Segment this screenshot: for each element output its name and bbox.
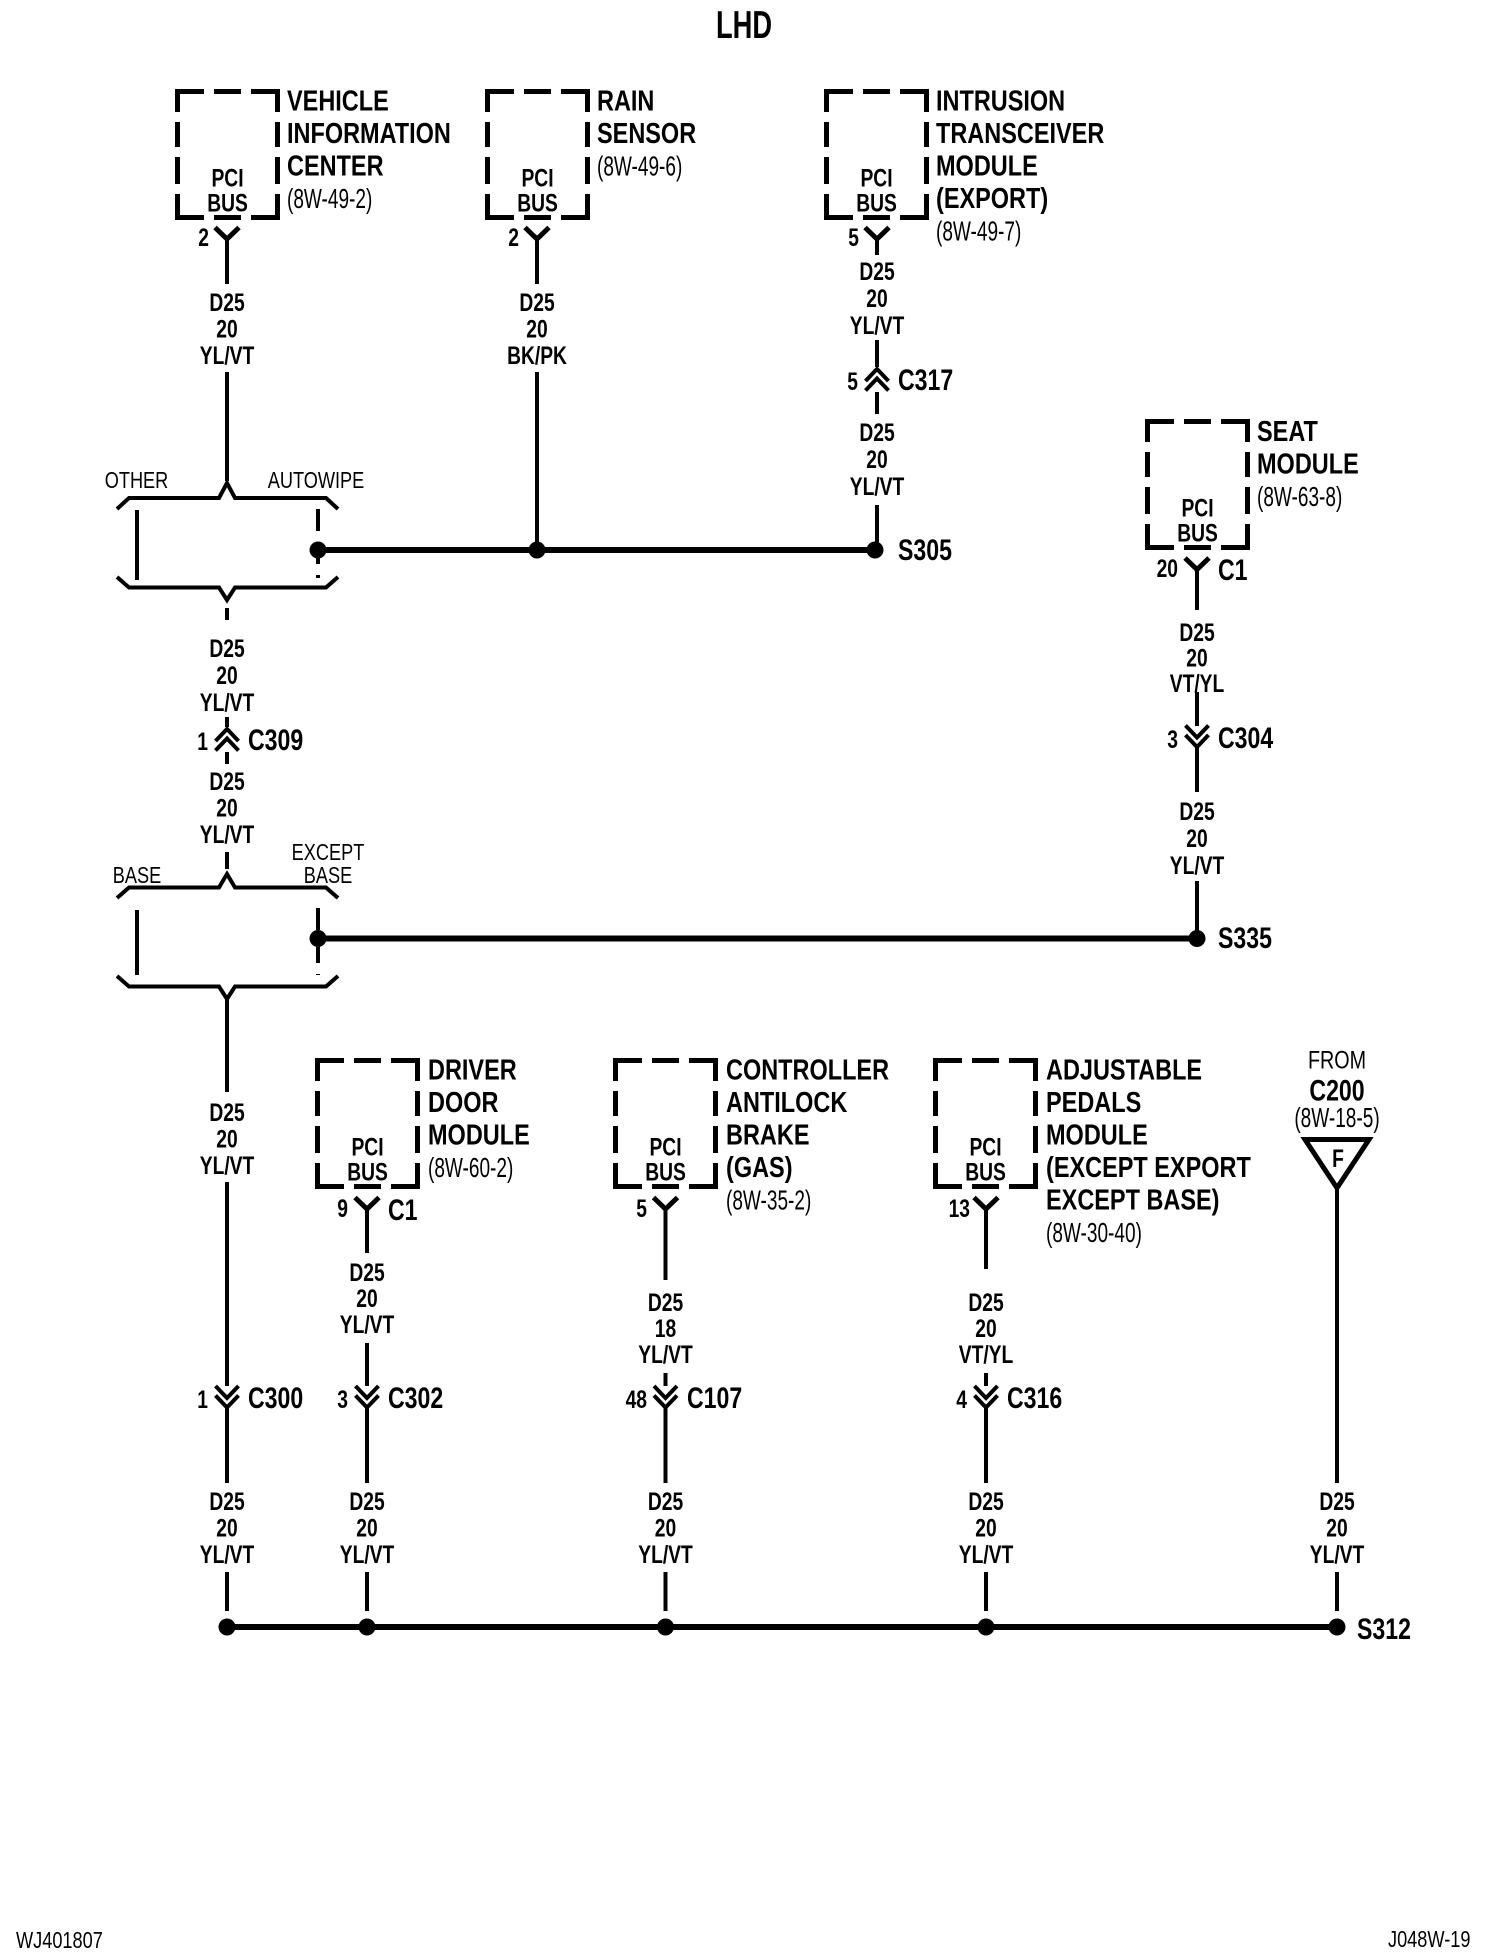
wire VIC to splice bbox=[225, 372, 229, 481]
wire C309 lower stem bbox=[225, 752, 229, 764]
svg-text:PCI: PCI bbox=[649, 1133, 681, 1161]
svg-text:OTHER: OTHER bbox=[105, 468, 169, 494]
svg-text:(8W-35-2): (8W-35-2) bbox=[726, 1185, 811, 1217]
svg-text:D25: D25 bbox=[519, 289, 554, 317]
wire rain sensor to S305 bbox=[535, 372, 539, 548]
pin 5 of intrusion module bbox=[848, 224, 859, 252]
wire label D25 20 YL/VT (controller column lower) bbox=[638, 1488, 693, 1569]
svg-text:YL/VT: YL/VT bbox=[638, 1541, 693, 1569]
module U1 VEHICLE INFORMATION CENTER box bbox=[175, 84, 451, 220]
svg-text:YL/VT: YL/VT bbox=[200, 1152, 255, 1180]
svg-text:20: 20 bbox=[216, 1514, 237, 1542]
svg-text:LHD: LHD bbox=[716, 4, 772, 47]
svg-text:1: 1 bbox=[197, 728, 208, 756]
connector Y at pedals pin 13 bbox=[974, 1198, 998, 1270]
wire label D25 20 YL/VT (left column) bbox=[200, 1099, 255, 1180]
svg-text:VT/YL: VT/YL bbox=[959, 1341, 1014, 1369]
svg-text:(EXPORT): (EXPORT) bbox=[936, 182, 1048, 215]
wire C200 column to S312 bbox=[1335, 1572, 1339, 1611]
svg-text:ADJUSTABLE: ADJUSTABLE bbox=[1046, 1053, 1202, 1086]
svg-text:VEHICLE: VEHICLE bbox=[287, 84, 389, 117]
svg-text:PCI: PCI bbox=[521, 164, 553, 192]
wire AUTOWIPE branch (dashed) bbox=[316, 509, 320, 578]
svg-text:(8W-63-8): (8W-63-8) bbox=[1257, 481, 1342, 513]
wire controller to C107 bbox=[664, 1373, 668, 1386]
svg-text:20: 20 bbox=[1186, 825, 1207, 853]
wire label D25 20 YL/VT (above base splice) bbox=[200, 768, 255, 849]
brace top of BASE splice bbox=[117, 874, 338, 898]
module U2 RAIN SENSOR box bbox=[485, 84, 696, 220]
svg-text:20: 20 bbox=[526, 315, 547, 343]
svg-text:YL/VT: YL/VT bbox=[638, 1341, 693, 1369]
svg-text:D25: D25 bbox=[349, 1259, 384, 1287]
connector C300 bbox=[197, 1381, 303, 1415]
pin 9 of driver door module connector C1 bbox=[337, 1195, 348, 1223]
wire stub above base splice (dashed) bbox=[225, 852, 229, 869]
wire left column to C300 bbox=[225, 1182, 229, 1386]
svg-text:FROM: FROM bbox=[1308, 1046, 1366, 1074]
connector Y C1 at seat module bbox=[1185, 553, 1248, 610]
wire controller column to S312 bbox=[664, 1572, 668, 1611]
wire intrusion to C317 bbox=[875, 340, 879, 367]
svg-text:5: 5 bbox=[847, 368, 858, 396]
svg-text:D25: D25 bbox=[859, 258, 894, 286]
svg-text:D25: D25 bbox=[209, 635, 244, 663]
svg-text:13: 13 bbox=[949, 1195, 970, 1223]
connector Y at VIC pin 2 bbox=[215, 228, 239, 285]
wire pedals to C316 bbox=[984, 1373, 988, 1386]
wire EXCEPT BASE branch (dashed) bbox=[316, 908, 320, 975]
wire C302 lower stem bbox=[365, 1407, 369, 1483]
wire seat to C304 bbox=[1195, 692, 1199, 726]
connector C107 bbox=[626, 1381, 743, 1415]
svg-text:C316: C316 bbox=[1007, 1381, 1062, 1415]
svg-text:3: 3 bbox=[337, 1386, 348, 1414]
node rain junction on S305 line bbox=[529, 542, 546, 559]
svg-text:C1: C1 bbox=[1218, 553, 1248, 587]
svg-text:PCI: PCI bbox=[860, 164, 892, 192]
off-page connector F from C200 bbox=[1294, 1046, 1379, 1188]
wire label D25 20 BK/PK (rain) bbox=[507, 289, 567, 370]
svg-text:RAIN: RAIN bbox=[597, 84, 654, 117]
wire OTHER branch bbox=[135, 510, 139, 580]
wire below base splice bbox=[225, 1000, 229, 1092]
svg-text:YL/VT: YL/VT bbox=[850, 473, 905, 501]
svg-text:20: 20 bbox=[866, 285, 887, 313]
module U3 INTRUSION TRANSCEIVER MODULE box bbox=[824, 84, 1104, 247]
brace bottom of BASE splice bbox=[117, 976, 338, 999]
brace bottom of OTHER/AUTOWIPE splice bbox=[117, 577, 338, 600]
svg-text:20: 20 bbox=[975, 1315, 996, 1343]
footer drawing number WJ401807 bbox=[16, 1928, 103, 1954]
svg-text:18: 18 bbox=[655, 1315, 676, 1343]
svg-text:F: F bbox=[1332, 1145, 1344, 1173]
wire stub below splice (dashed) bbox=[225, 608, 229, 620]
svg-text:BUS: BUS bbox=[207, 189, 248, 217]
wire label D25 20 YL/VT (intrusion lower) bbox=[850, 419, 905, 501]
svg-text:BUS: BUS bbox=[347, 1158, 388, 1186]
svg-text:20: 20 bbox=[1326, 1514, 1347, 1542]
svg-text:AUTOWIPE: AUTOWIPE bbox=[268, 468, 365, 494]
svg-text:2: 2 bbox=[198, 224, 209, 252]
svg-text:D25: D25 bbox=[1179, 798, 1214, 826]
svg-text:20: 20 bbox=[356, 1285, 377, 1313]
connector C317 bbox=[847, 363, 953, 397]
pin 13 of adjustable pedals module bbox=[949, 1195, 970, 1223]
svg-text:C107: C107 bbox=[687, 1381, 742, 1415]
svg-text:D25: D25 bbox=[1179, 619, 1214, 647]
pin 2 of VIC bbox=[198, 224, 209, 252]
wire C300 lower stem bbox=[225, 1407, 229, 1483]
svg-text:BUS: BUS bbox=[856, 189, 897, 217]
svg-text:PCI: PCI bbox=[351, 1133, 383, 1161]
svg-text:YL/VT: YL/VT bbox=[1310, 1541, 1365, 1569]
svg-text:20: 20 bbox=[1186, 644, 1207, 672]
svg-text:(8W-30-40): (8W-30-40) bbox=[1046, 1217, 1142, 1249]
svg-text:SEAT: SEAT bbox=[1257, 415, 1318, 448]
svg-text:DRIVER: DRIVER bbox=[428, 1053, 517, 1086]
svg-text:C300: C300 bbox=[248, 1381, 303, 1415]
pin 20 of seat module connector C1 bbox=[1157, 555, 1178, 583]
wire C316 lower stem bbox=[984, 1407, 988, 1483]
node junction pedals column bbox=[978, 1619, 995, 1636]
wire C304 lower stem bbox=[1195, 747, 1199, 793]
svg-text:C302: C302 bbox=[388, 1381, 443, 1415]
node junction except-base branch bbox=[310, 930, 327, 947]
svg-text:YL/VT: YL/VT bbox=[200, 821, 255, 849]
svg-text:(8W-18-5): (8W-18-5) bbox=[1294, 1102, 1379, 1134]
svg-text:D25: D25 bbox=[209, 289, 244, 317]
svg-text:(8W-49-2): (8W-49-2) bbox=[287, 183, 372, 215]
wire to splice S305 bbox=[875, 505, 879, 547]
module U4 SEAT MODULE box bbox=[1145, 415, 1359, 550]
module U5 DRIVER DOOR MODULE box bbox=[315, 1053, 530, 1189]
svg-text:20: 20 bbox=[216, 1125, 237, 1153]
wire label D25 18 YL/VT (controller) bbox=[638, 1289, 693, 1369]
connector C309 bbox=[197, 723, 303, 757]
splice S305 bbox=[867, 533, 953, 567]
svg-text:YL/VT: YL/VT bbox=[1170, 852, 1225, 880]
svg-text:D25: D25 bbox=[209, 1488, 244, 1516]
svg-text:(8W-49-7): (8W-49-7) bbox=[936, 216, 1021, 248]
svg-text:S305: S305 bbox=[898, 533, 952, 567]
svg-text:YL/VT: YL/VT bbox=[850, 312, 905, 340]
wire seat to S335 bbox=[1195, 881, 1199, 935]
svg-text:MODULE: MODULE bbox=[428, 1118, 530, 1151]
svg-text:SENSOR: SENSOR bbox=[597, 117, 696, 150]
svg-text:MODULE: MODULE bbox=[936, 149, 1038, 182]
connector C304 bbox=[1167, 721, 1273, 755]
connector Y C1 at driver door module bbox=[355, 1193, 418, 1253]
wire label D25 20 YL/VT (C200 column) bbox=[1310, 1488, 1365, 1569]
connector Y at intrusion pin 5 bbox=[865, 228, 889, 256]
svg-text:CONTROLLER: CONTROLLER bbox=[726, 1053, 889, 1086]
svg-text:20: 20 bbox=[216, 315, 237, 343]
node junction autowipe branch bbox=[310, 542, 327, 559]
svg-text:BUS: BUS bbox=[965, 1158, 1006, 1186]
svg-text:YL/VT: YL/VT bbox=[340, 1541, 395, 1569]
svg-text:PCI: PCI bbox=[211, 164, 243, 192]
wire driver door to C302 bbox=[365, 1343, 369, 1386]
svg-text:BASE: BASE bbox=[304, 863, 352, 889]
wire label D25 20 YL/VT (intrusion upper) bbox=[850, 258, 905, 340]
svg-text:YL/VT: YL/VT bbox=[200, 689, 255, 717]
pin 2 of rain sensor bbox=[508, 224, 519, 252]
svg-text:BRAKE: BRAKE bbox=[726, 1118, 809, 1151]
svg-text:INFORMATION: INFORMATION bbox=[287, 117, 451, 150]
svg-text:20: 20 bbox=[216, 794, 237, 822]
svg-text:WJ401807: WJ401807 bbox=[16, 1928, 103, 1954]
svg-text:D25: D25 bbox=[648, 1488, 683, 1516]
option splice OTHER / AUTOWIPE labels bbox=[105, 468, 365, 494]
svg-text:MODULE: MODULE bbox=[1046, 1118, 1148, 1151]
svg-text:20: 20 bbox=[356, 1514, 377, 1542]
svg-text:EXCEPT BASE): EXCEPT BASE) bbox=[1046, 1183, 1220, 1216]
node junction left column bbox=[219, 1619, 236, 1636]
node junction driver column bbox=[359, 1619, 376, 1636]
svg-text:D25: D25 bbox=[209, 1099, 244, 1127]
wire bus S305 horizontal bbox=[318, 547, 875, 553]
svg-text:TRANSCEIVER: TRANSCEIVER bbox=[936, 117, 1104, 150]
wire pedals column to S312 bbox=[984, 1572, 988, 1611]
splice S335 bbox=[1189, 921, 1273, 955]
connector C316 bbox=[956, 1381, 1062, 1415]
wire label D25 20 YL/VT (VIC) bbox=[200, 289, 255, 370]
svg-text:D25: D25 bbox=[209, 768, 244, 796]
svg-text:(8W-60-2): (8W-60-2) bbox=[428, 1152, 513, 1184]
wire BASE branch bbox=[135, 910, 139, 975]
connector Y at rain sensor pin 2 bbox=[525, 228, 549, 285]
svg-text:20: 20 bbox=[866, 446, 887, 474]
wire label D25 20 VT/YL (pedals) bbox=[959, 1289, 1014, 1369]
wire bus S335 horizontal bbox=[318, 936, 1197, 942]
option splice BASE / EXCEPT BASE labels bbox=[113, 840, 365, 889]
svg-text:BUS: BUS bbox=[645, 1158, 686, 1186]
svg-text:C1: C1 bbox=[388, 1193, 418, 1227]
svg-text:EXCEPT: EXCEPT bbox=[292, 840, 365, 866]
title LHD bbox=[716, 4, 772, 47]
module U7 ADJUSTABLE PEDALS MODULE box bbox=[933, 1053, 1251, 1249]
svg-text:9: 9 bbox=[337, 1195, 348, 1223]
svg-text:2: 2 bbox=[508, 224, 519, 252]
svg-text:YL/VT: YL/VT bbox=[200, 342, 255, 370]
wire driver column to S312 bbox=[365, 1572, 369, 1611]
wire label D25 20 YL/VT (left column lower) bbox=[200, 1488, 255, 1569]
svg-text:BUS: BUS bbox=[517, 189, 558, 217]
svg-text:C309: C309 bbox=[248, 723, 303, 757]
svg-text:PCI: PCI bbox=[969, 1133, 1001, 1161]
svg-text:1: 1 bbox=[197, 1386, 208, 1414]
module U6 CONTROLLER ANTILOCK BRAKE box bbox=[613, 1053, 889, 1216]
svg-text:S312: S312 bbox=[1357, 1612, 1411, 1646]
svg-text:DOOR: DOOR bbox=[428, 1086, 498, 1119]
wire bus S312 horizontal bbox=[227, 1624, 1337, 1630]
svg-text:4: 4 bbox=[956, 1386, 967, 1414]
svg-text:20: 20 bbox=[975, 1514, 996, 1542]
svg-text:3: 3 bbox=[1167, 726, 1178, 754]
splice S312 bbox=[1329, 1612, 1411, 1646]
svg-text:48: 48 bbox=[626, 1386, 647, 1414]
svg-text:S335: S335 bbox=[1218, 921, 1272, 955]
svg-text:MODULE: MODULE bbox=[1257, 447, 1359, 480]
svg-text:D25: D25 bbox=[859, 419, 894, 447]
wire label D25 20 YL/VT (seat lower) bbox=[1170, 798, 1225, 880]
svg-text:D25: D25 bbox=[1319, 1488, 1354, 1516]
wire to C309 bbox=[225, 717, 229, 727]
wire label D25 20 YL/VT (below autowipe splice) bbox=[200, 635, 255, 717]
svg-text:YL/VT: YL/VT bbox=[200, 1541, 255, 1569]
brace top of OTHER/AUTOWIPE splice bbox=[117, 483, 338, 509]
svg-text:(EXCEPT EXPORT: (EXCEPT EXPORT bbox=[1046, 1151, 1251, 1184]
svg-text:YL/VT: YL/VT bbox=[340, 1311, 395, 1339]
wire label D25 20 YL/VT (pedals column lower) bbox=[959, 1488, 1014, 1569]
wire C317 lower stem bbox=[875, 392, 879, 414]
svg-text:D25: D25 bbox=[968, 1488, 1003, 1516]
svg-text:5: 5 bbox=[848, 224, 859, 252]
wire C107 lower stem bbox=[664, 1407, 668, 1483]
svg-text:C304: C304 bbox=[1218, 721, 1273, 755]
svg-text:(GAS): (GAS) bbox=[726, 1151, 793, 1184]
svg-text:ANTILOCK: ANTILOCK bbox=[726, 1086, 847, 1119]
connector C302 bbox=[337, 1381, 443, 1415]
svg-text:20: 20 bbox=[1157, 555, 1178, 583]
svg-text:BUS: BUS bbox=[1177, 519, 1218, 547]
wire label D25 20 VT/YL (seat upper) bbox=[1170, 619, 1225, 698]
svg-text:YL/VT: YL/VT bbox=[959, 1541, 1014, 1569]
svg-text:C317: C317 bbox=[898, 363, 953, 397]
pin 5 of controller antilock brake bbox=[636, 1195, 647, 1223]
wire left column to S312 bbox=[225, 1572, 229, 1611]
svg-text:BASE: BASE bbox=[113, 863, 161, 889]
svg-text:5: 5 bbox=[636, 1195, 647, 1223]
svg-text:INTRUSION: INTRUSION bbox=[936, 84, 1065, 117]
svg-text:BK/PK: BK/PK bbox=[507, 342, 567, 370]
footer sheet number J048W-19 bbox=[1388, 1927, 1470, 1953]
wire label D25 20 YL/VT (driver column lower) bbox=[340, 1488, 395, 1569]
svg-text:(8W-49-6): (8W-49-6) bbox=[597, 151, 682, 183]
svg-text:D25: D25 bbox=[968, 1289, 1003, 1317]
svg-text:D25: D25 bbox=[349, 1488, 384, 1516]
wire label D25 20 YL/VT (driver door) bbox=[340, 1259, 395, 1339]
node junction controller column bbox=[657, 1619, 674, 1636]
svg-text:CENTER: CENTER bbox=[287, 149, 384, 182]
svg-text:J048W-19: J048W-19 bbox=[1388, 1927, 1470, 1953]
wire from C200 down bbox=[1335, 1188, 1339, 1483]
connector Y at controller pin 5 bbox=[654, 1198, 678, 1281]
svg-text:20: 20 bbox=[216, 662, 237, 690]
svg-text:PEDALS: PEDALS bbox=[1046, 1086, 1141, 1119]
svg-text:D25: D25 bbox=[648, 1289, 683, 1317]
svg-text:20: 20 bbox=[655, 1514, 676, 1542]
svg-text:PCI: PCI bbox=[1181, 494, 1213, 522]
